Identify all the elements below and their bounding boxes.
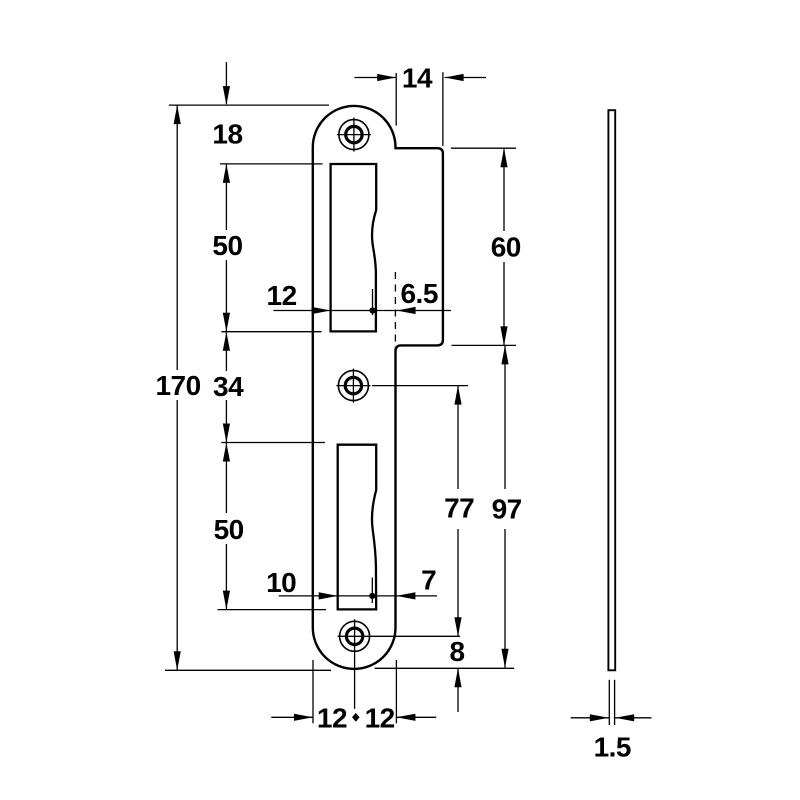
dimension 97 (right column) [492, 345, 522, 667]
extension line slot1 bottom [221, 331, 321, 333]
dimension 14 (top) [355, 63, 487, 94]
screw hole top [337, 118, 371, 152]
svg-text:14: 14 [402, 63, 433, 94]
latch slot upper (with break-line wave on right edge) [331, 164, 377, 331]
svg-text:60: 60 [491, 232, 521, 263]
extension line slot1 top [220, 163, 323, 165]
screw hole bottom [338, 619, 372, 653]
dimension 50 lower (left column) [214, 443, 244, 610]
extension line 14-dim left vertical [395, 73, 397, 126]
svg-text:12: 12 [317, 703, 347, 734]
extension line below plate right [395, 660, 397, 723]
extension line slot2 top [221, 442, 325, 444]
svg-text:1.5: 1.5 [594, 732, 631, 763]
extension line step top right [451, 147, 516, 149]
svg-text:18: 18 [212, 118, 242, 149]
latch slot lower (with break-line wave on right edge) [338, 445, 377, 610]
extension line step bottom right [452, 344, 517, 346]
plate outline (front view of strike plate) [313, 106, 443, 669]
svg-text:10: 10 [266, 567, 296, 598]
dimension 12 / 6.5 row (upper slot) [267, 278, 451, 315]
side view thin plate [608, 110, 615, 670]
screw hole middle [336, 369, 370, 403]
dimension 1.5 (side view) [571, 714, 652, 762]
extension line bottom hole to right [371, 635, 460, 637]
svg-text:97: 97 [492, 493, 522, 524]
svg-text:34: 34 [213, 371, 244, 402]
svg-text:77: 77 [444, 493, 474, 524]
svg-text:6.5: 6.5 [400, 278, 437, 309]
dimension 10 / 7 row (lower slot) [266, 565, 437, 603]
svg-text:50: 50 [212, 230, 242, 261]
svg-text:8: 8 [450, 636, 465, 667]
extension line 14-dim right vertical [442, 72, 444, 146]
dimension 50 upper (left column) [212, 164, 242, 332]
dimension 18 (left column) [212, 62, 242, 149]
svg-text:50: 50 [214, 514, 244, 545]
extension line top (y=105) [169, 104, 329, 106]
hidden edge dashed line (plate right edge through tab) [394, 272, 396, 348]
dimension 170 (far left column) [155, 105, 200, 670]
extension line slot2 bottom [218, 609, 327, 611]
dimension 34 (left column) [213, 332, 244, 443]
svg-text:12: 12 [267, 280, 297, 311]
svg-text:12: 12 [365, 703, 395, 734]
extension line plate bottom left [165, 669, 331, 671]
extension line below plate center [354, 653, 356, 709]
svg-text:170: 170 [155, 370, 200, 401]
dimension 60 (right column) [491, 148, 521, 345]
extension line middle hole to right [372, 385, 468, 387]
dimension 77 (right inner column) [444, 386, 474, 637]
svg-text:7: 7 [421, 565, 436, 596]
dimension 12 12 row (bottom) [271, 703, 436, 734]
extension lines below side view [608, 680, 610, 725]
dimension 8 (right inner column, below) [450, 636, 465, 712]
extension line below plate left [312, 660, 314, 723]
extension line plate bottom right [375, 667, 515, 669]
